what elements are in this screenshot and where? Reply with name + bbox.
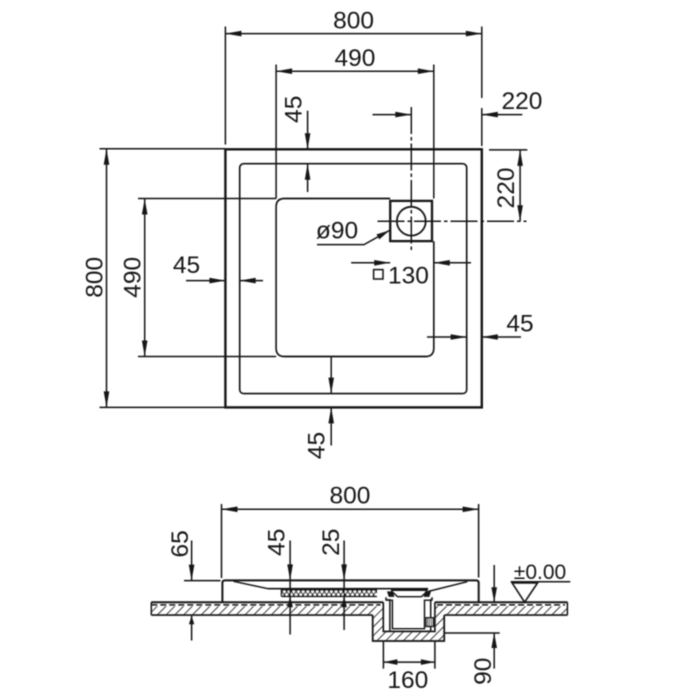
svg-text:45: 45 <box>173 252 200 279</box>
svg-text:25: 25 <box>318 529 345 556</box>
svg-text:ø90: ø90 <box>316 218 358 245</box>
svg-text:800: 800 <box>330 483 371 510</box>
svg-text:800: 800 <box>333 7 374 34</box>
svg-text:90: 90 <box>470 658 497 685</box>
svg-text:800: 800 <box>81 257 108 298</box>
svg-text:65: 65 <box>167 530 194 557</box>
svg-text:490: 490 <box>119 257 146 298</box>
svg-text:160: 160 <box>387 667 428 694</box>
svg-text:220: 220 <box>493 168 520 209</box>
svg-text:45: 45 <box>506 311 533 338</box>
svg-text:490: 490 <box>335 45 376 72</box>
svg-text:±0.00: ±0.00 <box>514 561 566 584</box>
svg-text:220: 220 <box>502 88 543 115</box>
svg-text:45: 45 <box>281 96 308 123</box>
svg-text:130: 130 <box>388 263 429 290</box>
svg-text:45: 45 <box>303 432 330 459</box>
svg-text:45: 45 <box>263 529 290 556</box>
